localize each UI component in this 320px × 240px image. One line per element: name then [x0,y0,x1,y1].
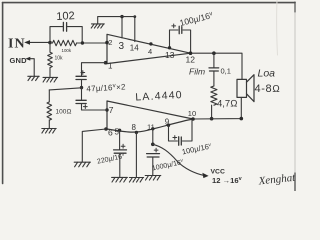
svg-text:5: 5 [115,128,120,137]
label VCC range 12-16V [212,176,243,185]
resistor R4 4.7 ohm [211,86,217,119]
label VCC [211,169,225,176]
label speaker 4-8 ohm [255,83,281,95]
ground at GND [28,76,39,80]
wire pin10 to speaker bottom [193,97,241,119]
svg-text:14: 14 [130,44,139,53]
svg-text:Loa: Loa [258,68,276,80]
label U1 LA.4440 [135,89,183,103]
wire input arrow [27,41,50,43]
pin 6 [104,127,108,131]
pin 7 [105,108,108,111]
label R2 10k [55,56,64,62]
capacitor C6 1000u on pin 11 [154,148,158,152]
wire pin 11 down [152,129,154,145]
node IN label [8,37,26,52]
capacitor C7 100u pin9-pin10 [169,120,193,141]
svg-text:7: 7 [109,105,114,115]
pin 8 [135,131,138,134]
wire pin 6 to ground [82,129,106,162]
ground under R3 [42,129,56,134]
label R3 100 ohm [56,109,72,116]
pin 14 stub [134,17,136,42]
signature [257,172,297,188]
junction mid node 47u [80,86,83,89]
svg-text:IN: IN [8,37,26,52]
svg-text:4-8Ω: 4-8Ω [255,83,281,95]
svg-text:LA.4440: LA.4440 [135,89,183,103]
pin 13 stub [169,30,171,48]
node GND label [10,56,28,65]
label C6 1000u/16V [151,157,184,172]
svg-text:102: 102 [56,10,75,23]
wire GND to ground [29,59,35,76]
svg-text:100k: 100k [62,48,72,53]
capacitor C4b 47u plates [76,100,86,103]
wire pins 3,14 to top ground [98,17,135,24]
svg-text:0,1: 0,1 [221,67,231,76]
node A junction [48,41,52,45]
pin 11 [151,127,154,130]
pin 4 [149,42,152,45]
wire VCC to pin 11 [153,144,204,175]
resistor R1 100k [53,40,77,46]
ground pin 8 [129,178,143,183]
wire mid node to R3 [49,88,81,90]
op-amp U1A LA4440 channel 1 triangle [107,34,191,63]
svg-text:100Ω: 100Ω [56,109,72,116]
label C7 100u/16V [181,141,212,156]
capacitor C2 100u/16V pin13-pin12 wires [170,30,191,53]
capacitor C4b polarity + [83,105,87,109]
label speaker Loa [258,68,276,80]
wire pin1 to C4a [82,63,106,76]
capacitor C3 film 0.1 [213,53,215,86]
ground top (pins 3,14) [91,24,104,28]
pin 5 [118,129,121,132]
label C4 47u/16V x2 [86,82,126,93]
label C3 0,1 [221,67,231,76]
capacitor C1 102 branch wires [50,27,82,43]
capacitor C4a polarity + [81,71,85,75]
border frame (page scan) [3,0,296,191]
svg-text:4: 4 [148,47,152,56]
speaker LS1 [237,75,254,102]
svg-text:12: 12 [186,55,196,65]
pin 9 [167,124,170,127]
svg-text:3: 3 [119,41,125,52]
svg-text:1: 1 [108,62,113,71]
label R1 100k [62,48,72,53]
resistor R2 10k [48,43,53,77]
label R4 4,7 ohm [217,99,238,110]
svg-text:10k: 10k [55,56,64,62]
wire output pin12 to speaker [191,53,243,79]
svg-text:13: 13 [165,50,175,60]
capacitor C2 plates [179,26,182,33]
svg-text:6: 6 [108,128,113,138]
svg-text:GND: GND [10,56,28,65]
capacitor C1 plates [63,22,66,31]
label C1 value 102 [56,10,75,23]
ground pin 6 [74,162,90,167]
wire pin 8 to ground [135,132,137,177]
svg-text:8: 8 [132,123,137,132]
pin 10 [191,117,195,121]
svg-text:2: 2 [108,38,112,47]
pin 3 stub [121,17,123,38]
svg-text:9: 9 [165,118,170,127]
ground C6 [145,176,161,181]
pin 2 [105,41,109,45]
wire node B to pin 2 [77,42,107,44]
svg-text:12 →16v: 12 →16v [212,176,243,185]
capacitor C5 220u on pin 5 [119,130,121,149]
ground under R2 [43,77,58,82]
label C3 Film [189,67,205,77]
junction node B [81,41,84,44]
op-amp U1B LA4440 channel 2 triangle [107,101,193,132]
wire C4a to mid node [81,80,83,88]
wire mid node to C4b to pin7 [82,88,108,110]
label C5 220u/16V [96,151,126,165]
label C2 100u/16V [179,10,214,28]
capacitor C2 polarity + [172,24,176,28]
svg-text:4,7Ω: 4,7Ω [217,99,238,110]
ground C5 [112,177,128,182]
pin 1 [104,61,108,65]
svg-text:VCC: VCC [211,169,225,176]
svg-text:Film: Film [189,67,205,77]
svg-text:11: 11 [147,123,155,132]
svg-text:10: 10 [188,109,196,118]
resistor R3 100 ohm [47,90,52,128]
pin 12 label [186,55,196,65]
capacitor C4a 47u plates [76,76,86,79]
